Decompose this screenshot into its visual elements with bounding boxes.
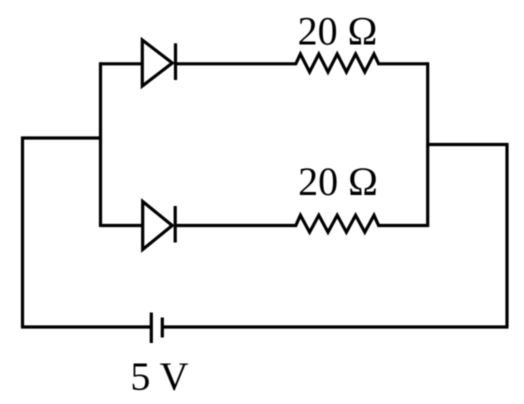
svg-text:20 Ω: 20 Ω	[298, 159, 378, 204]
svg-text:5 V: 5 V	[130, 354, 188, 399]
svg-text:20 Ω: 20 Ω	[298, 9, 378, 54]
